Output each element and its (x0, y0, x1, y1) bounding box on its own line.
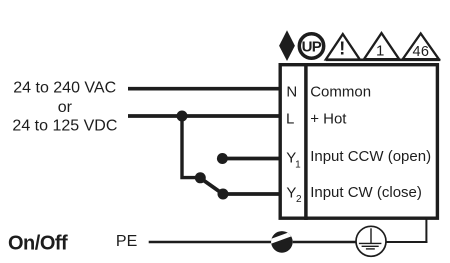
svg-text:Input CCW (open): Input CCW (open) (310, 148, 431, 165)
svg-text:Common: Common (310, 84, 371, 101)
svg-text:1: 1 (295, 160, 301, 171)
svg-text:24 to 125 VDC: 24 to 125 VDC (12, 117, 117, 134)
svg-text:Input CW (close): Input CW (close) (310, 184, 422, 201)
svg-text:Y: Y (286, 184, 296, 201)
svg-text:2: 2 (296, 194, 302, 205)
svg-text:N: N (286, 83, 297, 100)
svg-text:!: ! (339, 39, 345, 59)
svg-text:+ Hot: + Hot (310, 110, 347, 127)
svg-text:1: 1 (376, 43, 384, 60)
svg-text:46: 46 (413, 44, 430, 60)
svg-text:or: or (58, 99, 73, 116)
svg-text:24 to 240 VAC: 24 to 240 VAC (13, 80, 116, 97)
svg-text:On/Off: On/Off (8, 232, 68, 254)
svg-text:PE: PE (116, 233, 137, 250)
svg-text:L: L (286, 110, 294, 127)
svg-text:UP: UP (302, 39, 322, 56)
